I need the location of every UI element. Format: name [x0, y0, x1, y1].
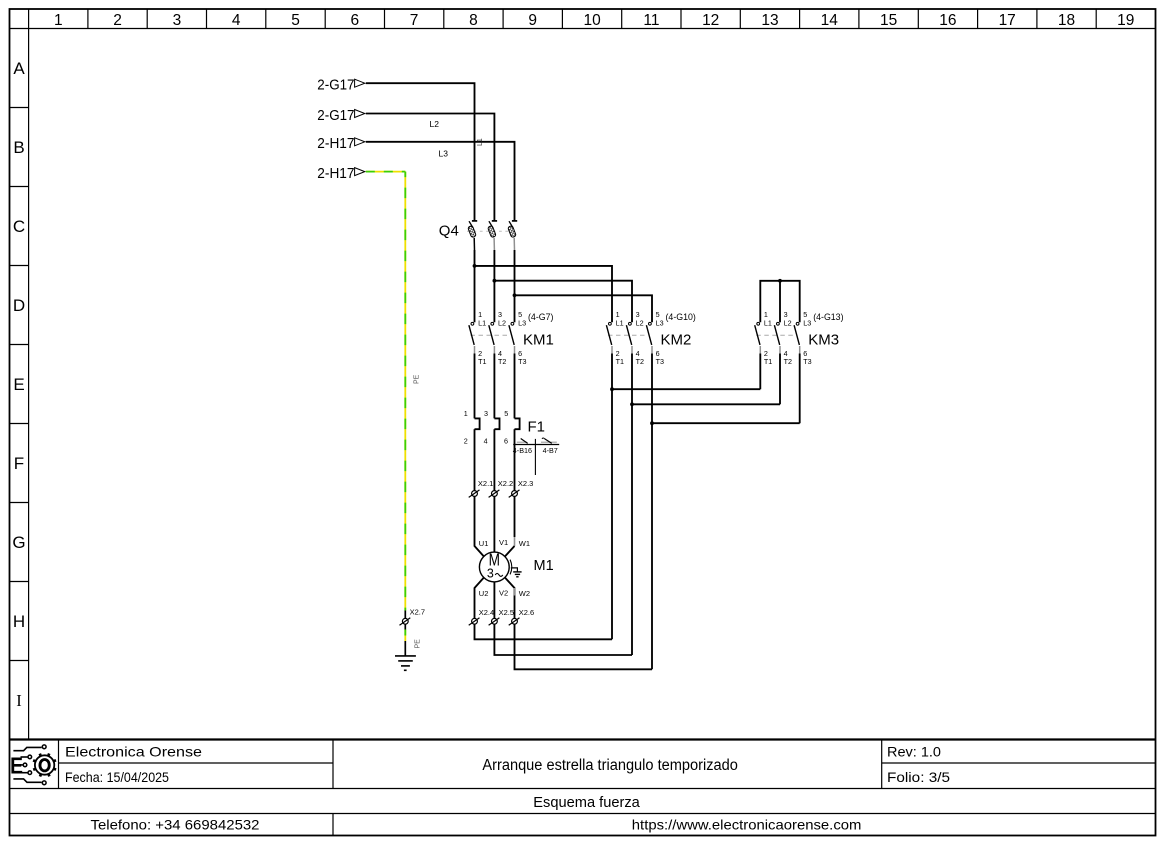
column numbers [54, 12, 1134, 29]
svg-text:D: D [13, 296, 25, 315]
svg-text:T2: T2 [498, 357, 506, 366]
wire X2.6 loop to KM2 T3 [515, 624, 653, 669]
wire KM1 T2 to F1 [493, 354, 495, 419]
svg-text:I: I [16, 691, 22, 710]
svg-text:T3: T3 [656, 357, 664, 366]
svg-text:F: F [14, 454, 24, 473]
row letters [12, 59, 25, 710]
wire X2.5 loop to KM2 T2 [494, 624, 632, 655]
terminal X2.5 [489, 608, 514, 625]
wire motor W2 down [505, 578, 515, 619]
svg-text:4: 4 [232, 12, 241, 29]
terminal X2.6 [509, 608, 534, 625]
motor terminal labels bottom [479, 589, 530, 599]
motor PE clamp arc [510, 560, 512, 575]
svg-text:T1: T1 [764, 357, 772, 366]
svg-text:T3: T3 [518, 357, 526, 366]
svg-text:12: 12 [702, 12, 719, 29]
connector 2-G17 [317, 108, 365, 124]
svg-text:7: 7 [410, 12, 419, 29]
thermal relay F1 [464, 409, 545, 445]
wire PE to ground [404, 624, 406, 656]
svg-text:(4-G10): (4-G10) [666, 312, 696, 322]
svg-text:10: 10 [583, 12, 601, 29]
svg-text:1: 1 [54, 12, 63, 29]
svg-text:15: 15 [880, 12, 897, 29]
svg-text:T1: T1 [478, 357, 486, 366]
wire motor U2 down [475, 578, 484, 619]
wire X2.3 to motor W1 [505, 496, 515, 556]
wire X2.4 loop to KM2 T1 [475, 624, 613, 639]
svg-text:H: H [13, 612, 25, 631]
label PE rotated (bottom) [415, 639, 422, 649]
svg-text:Electronica Orense: Electronica Orense [65, 743, 202, 759]
svg-text:L3: L3 [656, 318, 664, 327]
logo Electronica Orense [10, 745, 56, 785]
svg-text:X2.3: X2.3 [518, 479, 533, 488]
svg-text:X2.7: X2.7 [410, 608, 425, 617]
svg-text:4: 4 [484, 436, 488, 445]
svg-text:L3: L3 [518, 318, 526, 327]
svg-text:2-G17: 2-G17 [317, 78, 354, 94]
svg-text:G: G [12, 533, 25, 552]
svg-text:2-G17: 2-G17 [317, 108, 354, 124]
wire KM1 T3 to F1 [514, 354, 516, 419]
junction node KM2 T3 [650, 421, 654, 425]
wire branch to KM2 L3 [515, 295, 653, 322]
wire Q4 pole2 down to KM1 L2 [493, 250, 495, 322]
motor earth symbol [511, 568, 522, 577]
svg-text:L1: L1 [477, 138, 484, 146]
svg-text:W2: W2 [519, 589, 530, 598]
wire Q4 pole3 down to KM1 L3 [514, 250, 516, 322]
svg-text:B: B [13, 138, 24, 157]
terminal X2.2 [489, 479, 514, 497]
svg-text:KM1: KM1 [523, 331, 554, 348]
wire KM2 T3 to KM3 T3 [652, 422, 800, 424]
wire KM2 T2 vertical [631, 354, 633, 656]
wire KM3 T3 down [799, 354, 801, 424]
wire branch to KM2 L1 [475, 266, 613, 322]
svg-text:V2: V2 [499, 589, 508, 598]
svg-text:T3: T3 [803, 357, 811, 366]
junction node pole3 [513, 293, 517, 297]
svg-text:KM3: KM3 [808, 331, 839, 348]
svg-text:L1: L1 [478, 318, 486, 327]
wire KM2 T2 to KM3 T2 [632, 403, 780, 405]
svg-text:V1: V1 [499, 538, 508, 547]
svg-text:18: 18 [1058, 12, 1075, 29]
svg-text:L3: L3 [803, 318, 811, 327]
svg-text:13: 13 [761, 12, 778, 29]
wire branch to KM2 L2 [494, 281, 632, 323]
svg-text:2: 2 [113, 12, 122, 29]
label L3 [439, 149, 449, 159]
svg-text:KM2: KM2 [661, 331, 692, 348]
wire motor V2 down [493, 582, 495, 618]
terminal X2.4 [469, 608, 494, 625]
svg-text:Arranque estrella triangulo te: Arranque estrella triangulo temporizado [482, 757, 738, 774]
wire PE dashed [366, 172, 406, 611]
wire KM3 T2 down [779, 354, 781, 405]
connector 2-H17 [317, 136, 365, 152]
F1 auxiliary contacts [513, 438, 559, 475]
label L1 rotated [477, 138, 484, 146]
svg-text:A: A [13, 59, 25, 78]
wire KM3 T1 down [759, 354, 761, 390]
svg-text:Rev: 1.0: Rev: 1.0 [887, 743, 941, 759]
svg-text:3: 3 [487, 566, 494, 580]
title block texts [65, 743, 950, 832]
svg-text:X2.6: X2.6 [519, 608, 534, 617]
wire F1 out 2 [474, 429, 476, 490]
svg-text:PE: PE [414, 374, 421, 384]
connector 2-G17 [317, 78, 365, 94]
terminal X2.1 [469, 479, 494, 497]
svg-text:M1: M1 [534, 558, 554, 574]
svg-text:Esquema fuerza: Esquema fuerza [533, 795, 640, 811]
svg-text:(4-G7): (4-G7) [528, 312, 553, 322]
svg-text:1: 1 [464, 409, 468, 418]
label L2 [430, 119, 440, 129]
wire KM1 T1 to F1 [474, 354, 476, 419]
svg-text:Fecha: 15/04/2025: Fecha: 15/04/2025 [65, 769, 169, 785]
wire F1 out 4 [493, 429, 495, 490]
svg-text:U2: U2 [479, 589, 489, 598]
svg-text:Q4: Q4 [439, 223, 459, 240]
svg-text:C: C [13, 217, 25, 236]
svg-text:Folio: 3/5: Folio: 3/5 [887, 769, 950, 785]
svg-text:19: 19 [1117, 12, 1134, 29]
svg-text:PE: PE [415, 639, 422, 649]
wire KM2 T1 vertical [611, 354, 613, 640]
svg-text:L1: L1 [616, 318, 624, 327]
motor terminal labels top [479, 538, 530, 548]
svg-text:2-H17: 2-H17 [317, 166, 354, 182]
svg-text:F1: F1 [528, 419, 546, 436]
svg-text:T1: T1 [616, 357, 624, 366]
wire KM3 star point bridge [760, 281, 799, 323]
motor M1 [479, 551, 553, 582]
svg-text:11: 11 [643, 12, 659, 29]
wire X2.2 to motor V1 [493, 496, 495, 552]
svg-text:https://www.electronicaorense.: https://www.electronicaorense.com [632, 817, 862, 833]
junction node KM2 T1 [610, 387, 614, 391]
wire X2.1 to motor U1 [475, 496, 484, 556]
junction node pole1 [473, 264, 477, 268]
contactor KM2 [606, 310, 695, 366]
wire F1 out 6 [514, 429, 516, 490]
svg-text:4-B16: 4-B16 [513, 446, 532, 455]
connector 2-H17 [317, 166, 365, 182]
wire KM2 T3 vertical [651, 354, 653, 670]
contactor KM3 [755, 310, 844, 366]
svg-text:5: 5 [291, 12, 300, 29]
svg-text:3: 3 [173, 12, 182, 29]
svg-text:17: 17 [999, 12, 1016, 29]
svg-text:L3: L3 [439, 149, 449, 159]
svg-text:L2: L2 [430, 119, 440, 129]
ground symbol [395, 656, 416, 670]
svg-text:U1: U1 [479, 539, 489, 548]
svg-text:X2.2: X2.2 [498, 479, 513, 488]
svg-text:X2.5: X2.5 [499, 608, 514, 617]
contactor KM1 [469, 310, 554, 366]
svg-text:X2.1: X2.1 [478, 479, 493, 488]
wire Q4 pole1 down to KM1 L1 [474, 250, 476, 322]
svg-text:14: 14 [821, 12, 839, 29]
svg-text:5: 5 [504, 409, 508, 418]
terminal X2.7 [404, 611, 406, 619]
svg-text:T2: T2 [636, 357, 644, 366]
wire L1 feed [366, 83, 475, 221]
wire L3 feed [366, 142, 515, 221]
svg-text:6: 6 [350, 12, 359, 29]
svg-text:L2: L2 [498, 318, 506, 327]
svg-text:16: 16 [939, 12, 956, 29]
svg-text:4-B7: 4-B7 [543, 446, 558, 455]
label PE rotated (mid) [414, 374, 421, 384]
wire L2 feed [366, 114, 495, 221]
svg-text:6: 6 [504, 436, 508, 445]
svg-text:(4-G13): (4-G13) [813, 312, 843, 322]
junction node KM2 T2 [630, 402, 634, 406]
svg-text:L2: L2 [784, 318, 792, 327]
svg-text:2: 2 [464, 436, 468, 445]
junction node star point [778, 279, 782, 283]
breaker Q4 [439, 221, 517, 250]
svg-text:T2: T2 [784, 357, 792, 366]
svg-text:Telefono: +34 669842532: Telefono: +34 669842532 [91, 817, 260, 833]
svg-text:3: 3 [484, 409, 488, 418]
svg-text:2-H17: 2-H17 [317, 136, 354, 152]
svg-text:9: 9 [528, 12, 537, 29]
title block grid [10, 740, 1156, 836]
svg-text:8: 8 [469, 12, 478, 29]
terminal X2.3 [509, 479, 534, 497]
svg-text:E: E [13, 375, 24, 394]
wire KM2 T1 to KM3 T1 [612, 388, 760, 390]
svg-text:W1: W1 [519, 539, 530, 548]
svg-text:X2.4: X2.4 [479, 608, 494, 617]
svg-text:L2: L2 [636, 318, 644, 327]
svg-text:L1: L1 [764, 318, 772, 327]
junction node pole2 [493, 279, 497, 283]
